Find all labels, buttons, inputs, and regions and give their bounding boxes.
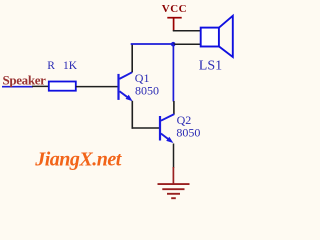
svg-text:LS1: LS1 xyxy=(199,59,222,74)
svg-text:R: R xyxy=(47,60,55,72)
svg-text:Speaker: Speaker xyxy=(3,72,47,87)
svg-text:8050: 8050 xyxy=(176,126,200,140)
svg-text:VCC: VCC xyxy=(162,3,187,15)
svg-text:1K: 1K xyxy=(63,60,78,72)
svg-text:8050: 8050 xyxy=(135,84,159,98)
svg-text:JiangX.net: JiangX.net xyxy=(34,148,123,170)
